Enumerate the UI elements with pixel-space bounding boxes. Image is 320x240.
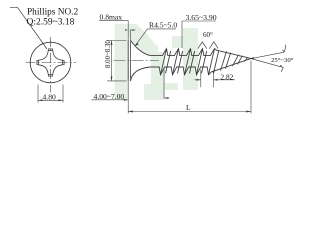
svg-text:60°: 60° xyxy=(203,31,213,39)
2.82 dimension segments xyxy=(195,79,236,81)
taper thread band 2 xyxy=(233,55,243,66)
svg-text:R4.5~5.0: R4.5~5.0 xyxy=(149,21,177,30)
arrow 0.8 right xyxy=(131,29,134,31)
0.8max extension face xyxy=(127,21,129,41)
60 degree chevron left xyxy=(198,42,207,49)
bottom thread outline xyxy=(150,58,254,75)
svg-text:8.00~8.30: 8.00~8.30 xyxy=(105,40,112,68)
svg-text:2.82: 2.82 xyxy=(221,72,234,81)
thread helix band 1 xyxy=(161,49,171,75)
thread helix band 2 xyxy=(173,49,183,75)
arrow R leader xyxy=(135,43,139,46)
angle arrow upper xyxy=(283,45,286,52)
3.65-3.90 leader xyxy=(182,21,216,48)
watermark bar A xyxy=(115,24,129,99)
2.82 extension lines xyxy=(201,70,214,88)
arrow 2.82 left xyxy=(197,79,201,81)
svg-text:L: L xyxy=(186,103,191,112)
4.80 dimension line xyxy=(38,99,63,101)
recess tip tab right xyxy=(62,61,64,65)
svg-text:3.65~3.90: 3.65~3.90 xyxy=(186,13,217,22)
thread helix band 5 xyxy=(209,49,219,75)
recess tip tab left xyxy=(37,61,39,65)
svg-text:4.00~7.00: 4.00~7.00 xyxy=(94,92,125,101)
point angle line upper xyxy=(251,52,284,58)
watermark column C xyxy=(151,52,165,100)
svg-text:Phillips NO.2: Phillips NO.2 xyxy=(27,8,78,18)
R4.5-5.0 leader xyxy=(135,29,176,46)
watermark strip G xyxy=(165,83,178,90)
svg-text:0.8max: 0.8max xyxy=(100,13,123,22)
horizontal centerline xyxy=(26,62,77,64)
arrow 2.82 right xyxy=(213,79,217,81)
8.00-8.30 extension top xyxy=(107,40,127,42)
bugle curve top xyxy=(131,41,150,56)
side view: head face line xyxy=(127,41,129,81)
svg-text:4.80: 4.80 xyxy=(43,93,56,102)
watermark wedge B xyxy=(128,24,158,55)
L extension left xyxy=(127,81,129,114)
svg-text:Q:2.59~3.18: Q:2.59~3.18 xyxy=(27,18,75,28)
4.00-7.00 dimension line xyxy=(92,99,129,101)
0.8max extension rim xyxy=(130,30,132,41)
8.00-8.30 dimension line xyxy=(111,41,113,81)
arrow 4.00 right-pointing xyxy=(124,99,128,101)
screw centerline xyxy=(114,60,160,62)
watermark column E xyxy=(183,28,198,90)
taper thread band 3 xyxy=(244,57,248,61)
leader to phillips note xyxy=(10,7,47,49)
taper thread band 1 xyxy=(221,51,231,70)
arrow 8.00 bottom xyxy=(111,76,113,81)
recess tip tab bottom xyxy=(49,74,53,76)
vertical centerline xyxy=(50,37,52,93)
arrow 4.80 left xyxy=(38,99,43,101)
phillips recess cross xyxy=(39,51,63,75)
4.00-7.00 extension thread start xyxy=(163,70,165,99)
head circle front view xyxy=(30,42,71,83)
L dimension line xyxy=(128,111,251,113)
arrow 4.00 left-pointing xyxy=(164,97,168,99)
thread helix band 4 xyxy=(197,49,207,75)
svg-text:25°~30°: 25°~30° xyxy=(271,57,294,64)
side view: head rim line xyxy=(130,41,132,81)
0.8max underline leader xyxy=(99,20,128,22)
8.00-8.30 extension bottom xyxy=(107,80,127,82)
60 degree chevron right xyxy=(209,42,218,49)
arrow 0.8 left xyxy=(125,29,128,31)
4.00-7.00 outside segment xyxy=(164,97,170,99)
arrow 8.00 top xyxy=(111,41,113,46)
watermark patch F xyxy=(172,36,183,48)
recess tip tab top xyxy=(49,49,53,51)
angle arrow lower xyxy=(280,65,284,72)
bugle curve bottom xyxy=(131,67,150,81)
top thread outline xyxy=(150,49,254,60)
arrow L right xyxy=(246,111,251,113)
L extension right xyxy=(250,61,252,114)
arrow 4.80 right xyxy=(59,99,64,101)
watermark blob D xyxy=(144,84,165,100)
thread helix band 3 xyxy=(185,49,195,75)
4.80 extension lines xyxy=(38,85,63,103)
0.8max dim tick xyxy=(131,29,136,31)
point angle line lower xyxy=(251,59,279,67)
arrow L left xyxy=(128,111,133,113)
